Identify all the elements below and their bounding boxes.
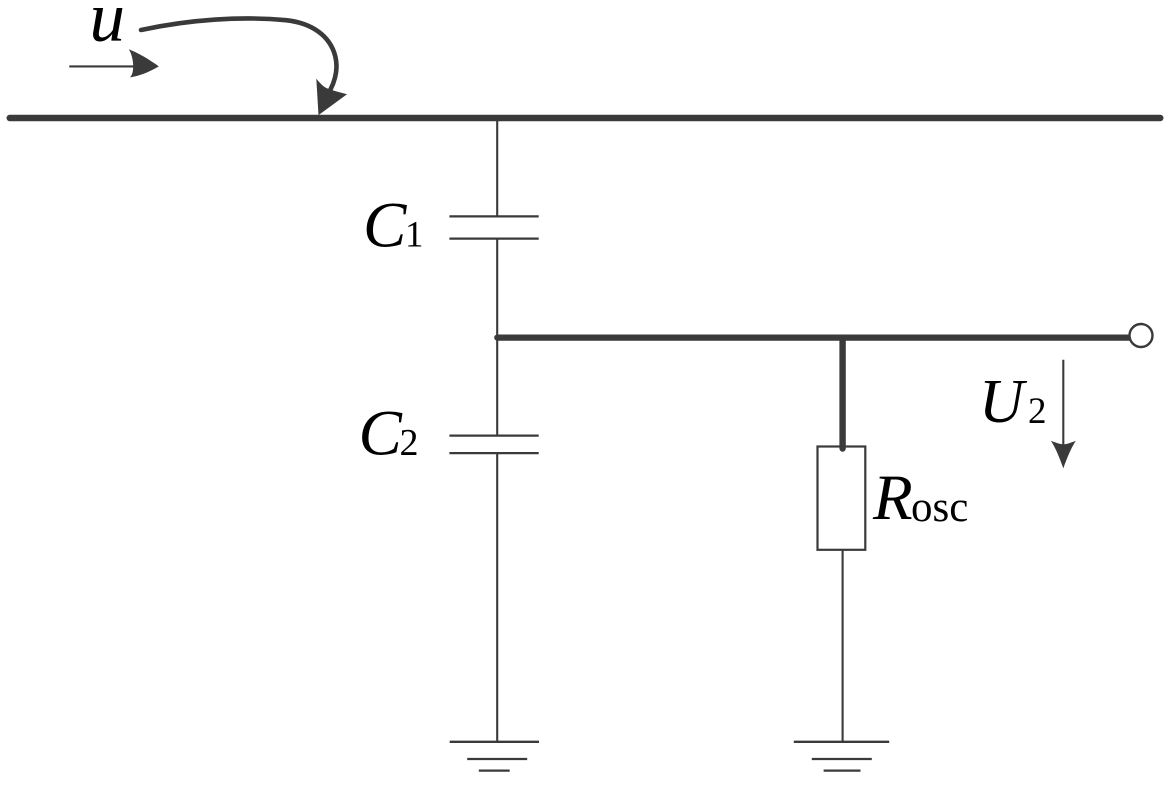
capacitor C2 xyxy=(449,436,538,454)
svg-text:u: u xyxy=(90,0,126,57)
svg-text:C: C xyxy=(363,190,407,262)
wire: Rosc to ground xyxy=(842,550,844,742)
svg-text:osc: osc xyxy=(911,484,968,531)
node: output line (thick) to terminal xyxy=(497,335,1130,341)
wire: C1 to C2 (through output node) xyxy=(496,239,498,436)
wire: main transmission line (top bus) xyxy=(10,115,1161,121)
ground (left) xyxy=(450,742,539,771)
capacitor C1 xyxy=(449,216,538,238)
wire: thick drop to Rosc xyxy=(839,338,845,449)
arrow: U2 reference direction (down) xyxy=(1051,360,1076,469)
svg-text:R: R xyxy=(872,462,913,534)
svg-text:C: C xyxy=(359,398,403,470)
ground (right) xyxy=(794,742,889,771)
svg-text:1: 1 xyxy=(405,215,424,256)
terminal: open circle output xyxy=(1130,324,1153,347)
wire: C2 down to ground xyxy=(496,453,498,742)
wire: vertical from bus down to C1 xyxy=(496,118,498,216)
resistor Rosc xyxy=(818,447,866,550)
arrow: wave direction (small right arrow) xyxy=(69,49,159,77)
svg-text:2: 2 xyxy=(400,422,419,464)
svg-text:U: U xyxy=(979,368,1028,436)
arrow: curved injection arrow from u onto the line xyxy=(141,18,347,115)
svg-text:2: 2 xyxy=(1028,391,1047,432)
